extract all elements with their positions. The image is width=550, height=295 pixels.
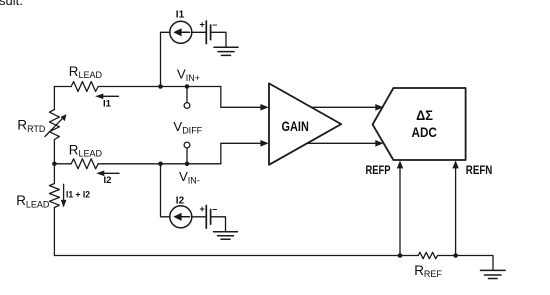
- svg-text:ADC: ADC: [412, 125, 438, 140]
- label + (battery V2): [200, 204, 205, 214]
- arrow across R_RTD (variable indicator): [45, 114, 67, 136]
- svg-text:I2: I2: [104, 175, 112, 186]
- label R_LEAD (top): [69, 64, 103, 80]
- node: junction of R_RTD, R_LEAD (mid), R_LEAD (bottom): [52, 162, 57, 167]
- wire: left vertical rail below middle node: [53, 164, 55, 184]
- label I1 + I2: [66, 190, 90, 201]
- resistor R_RTD (variable): [49, 110, 59, 140]
- arrow I2 current direction under middle R_LEAD: [96, 171, 119, 177]
- label I2 (current source): [176, 196, 185, 207]
- current source I1: [170, 21, 192, 43]
- label R_RTD: [17, 118, 46, 134]
- svg-text:RLEAD: RLEAD: [69, 142, 103, 158]
- label R_LEAD (middle): [69, 142, 103, 158]
- label + (battery V1): [200, 20, 205, 30]
- wire: left vertical rail between R_LEAD and R_RTD: [53, 87, 55, 110]
- svg-text:VIN-: VIN-: [179, 169, 200, 186]
- label V_IN-: [179, 169, 200, 186]
- wire: middle horizontal V_IN- rail: [54, 163, 220, 165]
- terminal circle V_IN+: [184, 103, 190, 109]
- label GAIN: [282, 119, 309, 134]
- label V_IN+: [177, 66, 200, 83]
- label R_REF: [414, 263, 442, 279]
- wire: REFN sense line with arrow into ADC: [452, 160, 458, 255]
- svg-text:GAIN: GAIN: [282, 119, 309, 134]
- label delta-sigma: [416, 108, 433, 123]
- resistor R_LEAD (middle, in V_IN- lead): [71, 159, 98, 169]
- current source I2: [170, 206, 192, 228]
- svg-text:RLEAD: RLEAD: [16, 193, 50, 209]
- svg-text:REFN: REFN: [466, 163, 493, 177]
- arrow I1+I2 current direction beside bottom R_LEAD: [61, 184, 67, 207]
- cut-off paragraph text "sult.": [0, 0, 23, 8]
- node: REFN junction on bottom rail: [453, 253, 458, 258]
- wire: I1 source to battery: [192, 31, 206, 33]
- label I2 (arrow): [104, 175, 112, 186]
- svg-text:I1 + I2: I1 + I2: [66, 190, 90, 201]
- wire: top horizontal V_IN+ rail from left corner to right corner: [54, 86, 220, 88]
- ground (reference, bottom right): [481, 270, 506, 278]
- wire: battery V2 to ground: [211, 217, 226, 232]
- label REFP: [366, 163, 391, 177]
- label I1 (arrow): [103, 98, 112, 109]
- wire: I2 source to battery: [192, 216, 206, 218]
- battery V1 (excitation for I1): [206, 21, 210, 44]
- svg-text:VIN+: VIN+: [177, 66, 200, 83]
- ADC U2 delta-sigma block: [373, 88, 466, 160]
- svg-text:–: –: [212, 204, 217, 214]
- resistor R_REF: [418, 252, 437, 258]
- label V_DIFF: [173, 119, 202, 136]
- wire: V_IN- to GAIN input: [221, 140, 269, 164]
- label - (battery V1): [212, 19, 217, 29]
- node: I2 branch junction on V_IN- rail: [158, 162, 163, 167]
- wire: battery V1 to ground: [211, 32, 226, 47]
- arrow I1 current direction under top R_LEAD: [95, 94, 118, 100]
- svg-text:RRTD: RRTD: [17, 118, 46, 134]
- wire: left vertical rail between R_RTD and middle node: [53, 140, 55, 164]
- wire: REFP sense line with arrow into ADC: [397, 160, 403, 255]
- terminal circle V_DIFF lower: [184, 142, 190, 148]
- svg-text:REFP: REFP: [366, 163, 391, 177]
- resistor R_LEAD (bottom return lead): [49, 184, 59, 208]
- wire: I1 source branch from V_IN+ rail: [161, 32, 170, 86]
- label REFN: [466, 163, 493, 177]
- node: I1 branch junction on V_IN+ rail: [158, 84, 163, 89]
- label ADC: [412, 125, 438, 140]
- svg-text:I2: I2: [176, 196, 185, 207]
- svg-text:–: –: [212, 19, 217, 29]
- svg-text:RREF: RREF: [414, 263, 442, 279]
- node: V_IN+ tap on top rail: [185, 84, 190, 89]
- wire: I2 source branch from V_IN- rail: [161, 164, 170, 217]
- resistor R_LEAD (top, in V_IN+ lead): [71, 82, 98, 92]
- node: V_IN- tap on middle rail: [185, 162, 190, 167]
- label - (battery V2): [212, 204, 217, 214]
- op-amp U1 GAIN block: [269, 83, 341, 164]
- ground (I1 battery): [214, 47, 238, 55]
- wire: left vertical rail down to bottom rail: [53, 208, 55, 256]
- wire: V_IN+ to GAIN input: [221, 87, 269, 111]
- svg-text:I1: I1: [176, 9, 185, 20]
- node: REFP junction on bottom rail: [398, 253, 403, 258]
- svg-text:RLEAD: RLEAD: [69, 64, 103, 80]
- label R_LEAD (bottom): [16, 193, 50, 209]
- svg-text:+: +: [200, 204, 205, 214]
- ground (I2 battery): [214, 232, 238, 240]
- svg-text:VDIFF: VDIFF: [173, 119, 202, 136]
- wire: V_IN+ tap stub: [186, 87, 188, 103]
- svg-text:I1: I1: [103, 98, 112, 109]
- svg-text:+: +: [200, 20, 205, 30]
- wire: V_IN- tap stub: [186, 148, 188, 164]
- wire: GAIN output to ADC (bottom): [307, 140, 383, 147]
- label I1 (current source): [176, 9, 185, 20]
- battery V2 (excitation for I2): [206, 206, 210, 229]
- wire: GAIN output to ADC (top): [311, 104, 383, 111]
- wire: bottom horizontal rail to R_REF and ground: [54, 256, 493, 271]
- svg-text:ΔΣ: ΔΣ: [416, 108, 433, 123]
